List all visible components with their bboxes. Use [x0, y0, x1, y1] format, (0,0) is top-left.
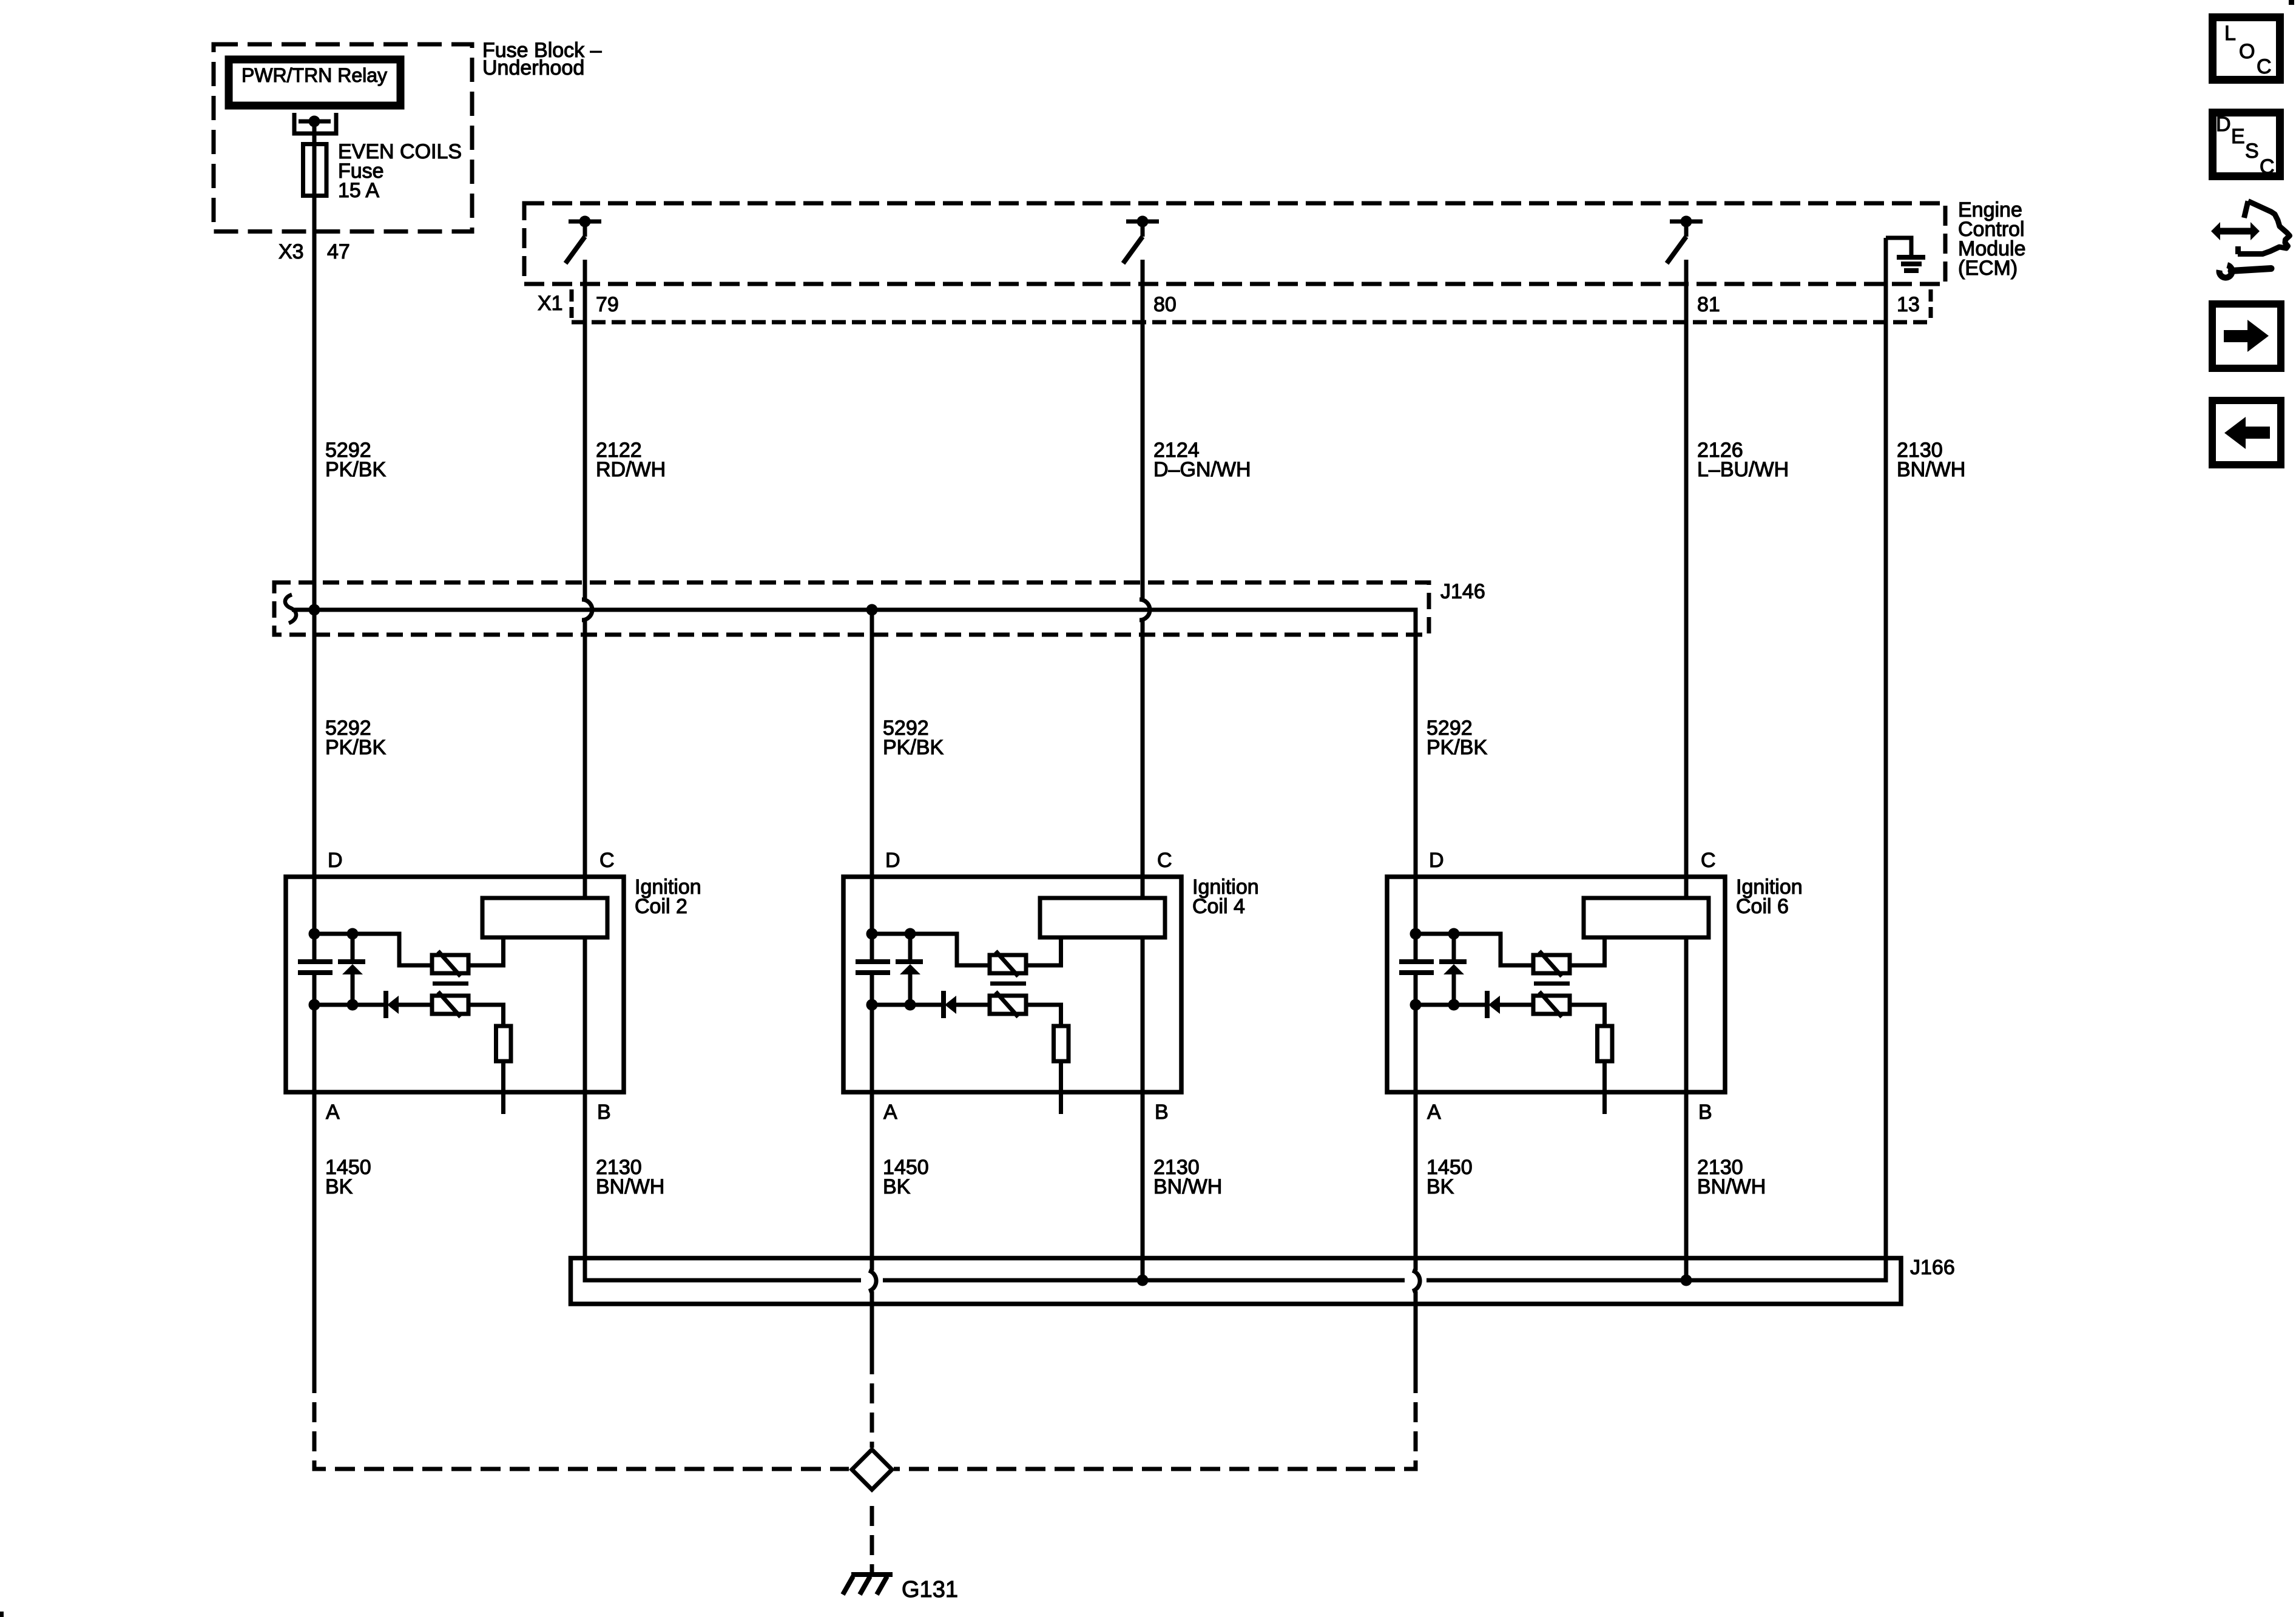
- wire 5292 PK/BK fuse to J146 to coil2 D (C1 column): [312, 121, 317, 962]
- icon LOC button: [2213, 18, 2280, 80]
- svg-text:15 A: 15 A: [338, 179, 379, 202]
- wire dashed diamond to G131: [870, 1497, 874, 1572]
- svg-text:S: S: [2245, 140, 2259, 163]
- wire 5292 J146 to coil6 D (C5) with J146 corner: [292, 610, 1416, 962]
- wire coil4 B 2130 BN/WH to J166 junction: [1141, 937, 1145, 1280]
- ECM driver switch pin 81: [1667, 216, 1703, 264]
- wire coil4 A below J166: [870, 1291, 874, 1374]
- ECM connector band bottom dashed line: [572, 320, 1931, 325]
- node J146 at 5292 coil2 feed: [309, 604, 320, 616]
- wire dashed coil4 A to splice diamond: [870, 1374, 874, 1448]
- fuse F EVEN COILS 15A (symbol): [303, 144, 327, 196]
- wire 2130 BN/WH ECM13 to J166 corner: [1884, 238, 1888, 1283]
- ignition coil 6 (module internals): [1387, 849, 1725, 1124]
- svg-text:BK: BK: [1427, 1175, 1454, 1198]
- node J166 at coil6 B: [1681, 1275, 1692, 1286]
- svg-text:X1: X1: [538, 292, 563, 315]
- wire coil2 B 2130 BN/WH to J166 corner: [585, 937, 861, 1280]
- wire 2126 L-BU/WH ECM81 to coil6 C: [1684, 260, 1689, 898]
- J166 hop of coil4 A wire: [869, 1271, 876, 1291]
- svg-text:13: 13: [1897, 293, 1920, 316]
- wire 2124 D-GN/WH ECM80 to J146 hop: [1141, 260, 1145, 599]
- J146 hop of wire 2122: [582, 599, 592, 620]
- svg-text:PK/BK: PK/BK: [883, 736, 944, 759]
- svg-text:BK: BK: [883, 1175, 911, 1198]
- ECM driver switch pin 80: [1123, 216, 1159, 264]
- wire 2124 to coil4 C: [1141, 620, 1145, 898]
- svg-text:80: 80: [1153, 293, 1177, 316]
- svg-text:E: E: [2231, 125, 2245, 148]
- wire coil6 A below J166: [1414, 1291, 1418, 1393]
- node relay output: [309, 116, 320, 127]
- svg-text:L–BU/WH: L–BU/WH: [1697, 458, 1789, 481]
- ECM U1 Engine Control Module dashed box: [524, 203, 1945, 284]
- svg-text:D–GN/WH: D–GN/WH: [1153, 458, 1251, 481]
- wire coil4 A 1450 BK down to J166 hop: [870, 973, 874, 1271]
- svg-text:Coil 6: Coil 6: [1736, 895, 1789, 918]
- wire 5292 J146 to coil4 D (C3): [870, 610, 874, 962]
- svg-text:PK/BK: PK/BK: [325, 458, 386, 481]
- svg-text:79: 79: [596, 293, 619, 316]
- J146 hop of wire 2124: [1140, 599, 1150, 620]
- svg-text:47: 47: [327, 240, 350, 263]
- svg-text:C: C: [2257, 55, 2272, 78]
- svg-text:PK/BK: PK/BK: [1427, 736, 1487, 759]
- svg-text:BN/WH: BN/WH: [1897, 458, 1965, 481]
- icon jump-to-component (component outline): [2244, 201, 2249, 218]
- svg-text:PWR/TRN Relay: PWR/TRN Relay: [241, 64, 387, 86]
- svg-text:L: L: [2224, 22, 2236, 45]
- svg-text:BN/WH: BN/WH: [1153, 1175, 1222, 1198]
- wire coil6 B 2130 BN/WH to J166 junction: [1684, 937, 1689, 1280]
- splice diamond (ground splice): [852, 1450, 892, 1490]
- svg-text:PK/BK: PK/BK: [325, 736, 386, 759]
- ground G131 symbol: [851, 1572, 893, 1577]
- wire dashed coil6 A to ground net: [894, 1393, 1416, 1469]
- svg-text:Underhood: Underhood: [482, 56, 584, 79]
- svg-text:X3: X3: [279, 240, 304, 263]
- wire coil2 A 1450 BK down (C1 column lower): [312, 973, 317, 1393]
- svg-text:BK: BK: [325, 1175, 353, 1198]
- wire coil6 A 1450 BK down to J166 hop: [1414, 973, 1418, 1271]
- svg-text:J146: J146: [1440, 580, 1485, 603]
- icon jump-to-component (double arrow): [2218, 228, 2252, 235]
- svg-text:D: D: [2216, 113, 2231, 136]
- ignition coil 2 (module internals): [286, 849, 624, 1124]
- splice J146 dashed box: [274, 582, 1429, 635]
- svg-text:O: O: [2239, 40, 2255, 63]
- svg-text:BN/WH: BN/WH: [596, 1175, 664, 1198]
- relay K PWR/TRN Relay (bold box): [229, 59, 400, 106]
- page corner speck bottom left: [0, 1612, 4, 1617]
- ignition coil 4 (module internals): [843, 849, 1181, 1124]
- J166 splice bus wire: [585, 1278, 1886, 1283]
- svg-text:RD/WH: RD/WH: [596, 458, 666, 481]
- svg-text:J166: J166: [1910, 1256, 1955, 1279]
- page corner speck top right: [2289, 0, 2294, 5]
- icon next-page button (right arrow): [2212, 304, 2281, 368]
- ECM driver switch pin 79: [566, 216, 601, 264]
- J146 splice clip squiggle: [285, 595, 296, 623]
- ECM connector separator at pin 13: [1929, 289, 1933, 318]
- wire 2122 RD/WH ECM79 to J146 hop: [583, 260, 587, 599]
- icon DESC button: [2213, 113, 2280, 177]
- node J146 at coil4 feed: [866, 604, 878, 616]
- splice J166 solid box: [571, 1258, 1902, 1305]
- ECM connector X1 separator: [570, 289, 574, 318]
- ECM internal ground at pin 13: [1886, 238, 1911, 257]
- icon prev-page button (left arrow): [2212, 400, 2281, 465]
- svg-text:Coil 4: Coil 4: [1192, 895, 1245, 918]
- svg-text:81: 81: [1697, 293, 1720, 316]
- J166 hop of coil6 A wire: [1413, 1271, 1420, 1291]
- wire dashed C1 to ground net: [314, 1393, 849, 1469]
- wire 2122 RD/WH to coil2 C: [583, 620, 587, 898]
- svg-text:G131: G131: [902, 1577, 958, 1602]
- svg-text:C: C: [2260, 155, 2275, 178]
- fuse block - underhood (dashed box): [214, 44, 472, 232]
- relay contact terminal bracket: [294, 113, 336, 133]
- svg-text:Coil 2: Coil 2: [635, 895, 687, 918]
- svg-text:(ECM): (ECM): [1958, 257, 2017, 280]
- svg-text:BN/WH: BN/WH: [1697, 1175, 1766, 1198]
- node J166 at coil4 B: [1137, 1275, 1149, 1286]
- icon jump-to-component (wrench): [2220, 265, 2232, 278]
